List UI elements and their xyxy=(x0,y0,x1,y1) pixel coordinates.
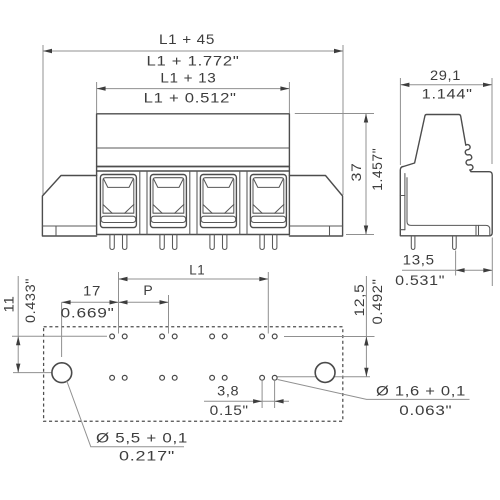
dim 17/P line xyxy=(62,301,169,303)
side flange tick xyxy=(400,195,405,197)
separator wall 3 xyxy=(240,171,247,235)
svg-text:L1: L1 xyxy=(189,262,205,278)
dim 29,1 arrow left xyxy=(400,83,409,87)
svg-text:0.15": 0.15" xyxy=(210,402,249,418)
dim 13,5 arrow left xyxy=(456,268,465,272)
dim L1+45 arrow left xyxy=(43,49,52,53)
dim 29,1 line xyxy=(400,84,492,86)
dim 11 arrow bottom xyxy=(16,364,20,373)
clamp unit 1 xyxy=(100,175,136,228)
dim L1+45 extension right xyxy=(342,45,344,195)
svg-text:0.063": 0.063" xyxy=(399,402,452,418)
side inner flange line xyxy=(404,174,406,230)
svg-text:17: 17 xyxy=(83,282,101,298)
svg-text:L1 + 45: L1 + 45 xyxy=(159,31,215,47)
mounting hole right xyxy=(315,363,335,383)
dim L1 line xyxy=(119,278,269,280)
dim L1 arrow right xyxy=(259,277,268,281)
dim L1+13 arrow left xyxy=(97,86,106,90)
dim 37 line xyxy=(365,114,367,235)
svg-text:37: 37 xyxy=(348,163,364,182)
pin holes row2 xyxy=(110,375,277,380)
dim 11 line xyxy=(17,276,19,373)
dim 37 extension top xyxy=(295,113,374,115)
svg-text:1.457": 1.457" xyxy=(369,148,385,191)
svg-text:Ø 1,6 + 0,1: Ø 1,6 + 0,1 xyxy=(376,382,466,398)
left end bracket xyxy=(42,176,96,237)
dim 12,5 arrow top xyxy=(364,337,368,346)
housing box divider xyxy=(97,147,290,149)
dim 3,8 arrow right xyxy=(275,399,284,403)
dim 13,5 arrow right xyxy=(483,268,492,272)
svg-text:0.217": 0.217" xyxy=(119,448,175,464)
dim 37 arrow top xyxy=(364,114,368,123)
plan dashed outline xyxy=(44,327,343,422)
side pin left xyxy=(411,236,415,250)
solder pins front xyxy=(110,235,277,250)
dim P arrow right xyxy=(160,300,169,304)
dim 11 extension top xyxy=(12,335,107,337)
dim 13,5 line xyxy=(402,269,492,271)
right bracket notch lines xyxy=(289,226,342,236)
dim 13,5 extension right xyxy=(491,238,493,287)
terminal strip outline xyxy=(97,167,290,235)
dim L1+13 line xyxy=(97,88,290,90)
dim extension col pair1 xyxy=(118,272,120,334)
dim 3,8 arrow left xyxy=(253,399,262,403)
svg-text:Ø 5,5 + 0,1: Ø 5,5 + 0,1 xyxy=(96,430,188,446)
separator wall 1 xyxy=(140,171,147,235)
dim P arrow left xyxy=(119,300,128,304)
side flange bottom tick xyxy=(400,229,405,231)
svg-text:L1 + 0.512": L1 + 0.512" xyxy=(144,90,237,106)
dim L1 arrow left xyxy=(119,277,128,281)
svg-text:P: P xyxy=(143,282,153,298)
right end bracket xyxy=(289,176,342,237)
svg-text:1.144": 1.144" xyxy=(422,86,473,102)
dim 17 extension at hole col xyxy=(61,302,63,357)
leader mounting hole xyxy=(67,381,184,447)
svg-text:0.669": 0.669" xyxy=(61,305,115,321)
dim 12,5 extension bottom xyxy=(278,376,371,378)
dim extension col pair2 xyxy=(168,295,170,334)
mounting hole left xyxy=(52,363,72,383)
side body profile xyxy=(400,115,492,236)
left bracket notch lines xyxy=(42,226,96,236)
clamp unit 3 xyxy=(200,175,236,228)
dim 11 extension bottom xyxy=(13,372,52,374)
svg-text:L1 + 13: L1 + 13 xyxy=(160,70,216,86)
svg-text:3,8: 3,8 xyxy=(217,383,239,399)
dim 29,1 extension left xyxy=(399,78,401,165)
svg-text:0.531": 0.531" xyxy=(395,272,445,288)
dim 11 arrow top xyxy=(16,336,20,345)
leader pin hole xyxy=(278,380,470,400)
dim 29,1 arrow right xyxy=(483,83,492,87)
dim L1+13 extension right xyxy=(288,82,290,113)
dim 12,5 arrow bottom xyxy=(364,368,368,377)
svg-text:L1 + 1.772": L1 + 1.772" xyxy=(147,53,240,69)
dim 17 arrow left xyxy=(62,300,71,304)
dim 3,8 extension right xyxy=(274,381,276,408)
dim L1+45 arrow right xyxy=(334,49,343,53)
dim 3,8 line xyxy=(204,400,289,402)
side bottom-right notch xyxy=(476,225,479,235)
strip double top line xyxy=(97,170,290,172)
svg-text:12,5: 12,5 xyxy=(351,284,367,317)
dim 12,5 extension top xyxy=(284,336,375,338)
dim L1+45 line xyxy=(43,50,343,52)
dim L1+45 extension left xyxy=(42,45,44,195)
dim extension col pair4 xyxy=(267,272,269,334)
housing top box xyxy=(97,114,290,167)
dim 17 arrow right xyxy=(110,300,119,304)
svg-text:13,5: 13,5 xyxy=(403,252,435,268)
dim 37 arrow bottom xyxy=(364,226,368,235)
clamp unit 4 xyxy=(250,175,286,228)
pin holes row1 xyxy=(110,334,277,339)
side inner L contour xyxy=(407,178,490,236)
dim 3,8 extension left xyxy=(261,381,263,408)
dim L1+13 extension left xyxy=(96,82,98,113)
svg-text:29,1: 29,1 xyxy=(430,67,461,83)
dim L1+13 arrow right xyxy=(280,86,289,90)
dim 29,1 extension right xyxy=(491,78,493,164)
svg-text:0.433": 0.433" xyxy=(22,278,38,323)
dim 13,5 extension left xyxy=(455,251,457,276)
dim 12,5 line xyxy=(365,276,367,377)
svg-text:11: 11 xyxy=(1,296,17,313)
side pin right xyxy=(453,236,457,250)
separator wall 2 xyxy=(190,171,197,235)
svg-text:0.492": 0.492" xyxy=(369,279,385,325)
clamp unit 2 xyxy=(150,175,186,228)
dim 37 extension bottom xyxy=(346,234,374,236)
